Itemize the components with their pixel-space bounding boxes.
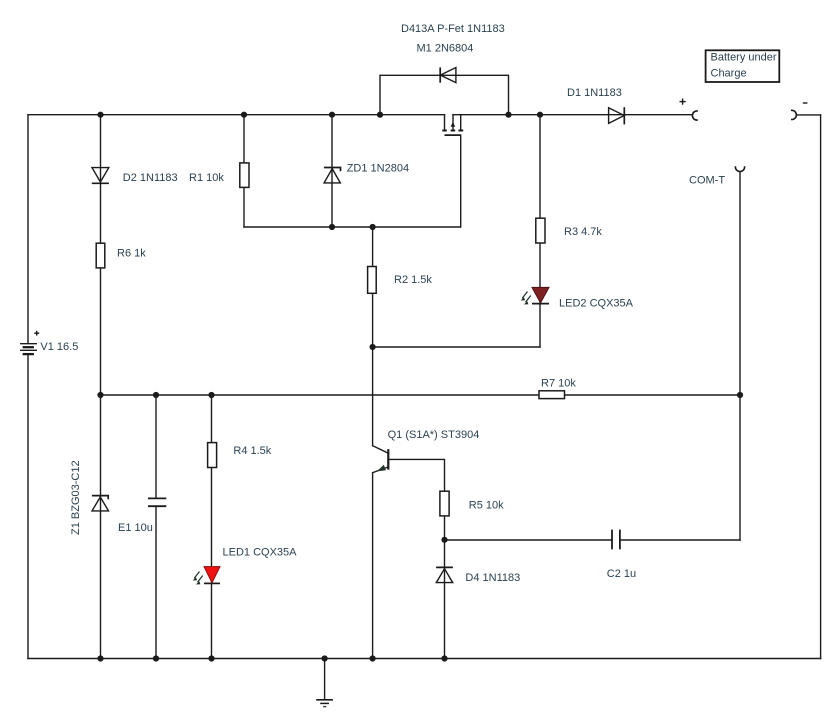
svg-text:R1 10k: R1 10k xyxy=(189,172,224,184)
svg-text:R7 10k: R7 10k xyxy=(541,378,576,390)
svg-text:R3 4.7k: R3 4.7k xyxy=(564,226,602,238)
svg-text:R5 10k: R5 10k xyxy=(469,500,504,512)
svg-text:R2 1.5k: R2 1.5k xyxy=(394,274,432,286)
svg-text:D1 1N1183: D1 1N1183 xyxy=(567,87,622,99)
svg-text:R6 1k: R6 1k xyxy=(117,248,146,260)
svg-text:ZD1 1N2804: ZD1 1N2804 xyxy=(347,163,409,175)
svg-text:D413A P-Fet 1N1183: D413A P-Fet 1N1183 xyxy=(401,23,505,35)
svg-text:Battery under: Battery under xyxy=(711,52,777,64)
svg-text:Charge: Charge xyxy=(711,68,747,80)
svg-text:D4 1N1183: D4 1N1183 xyxy=(465,572,520,584)
svg-text:Z1 BZG03-C12: Z1 BZG03-C12 xyxy=(70,460,82,535)
svg-text:LED2 CQX35A: LED2 CQX35A xyxy=(559,298,634,310)
svg-text:LED1 CQX35A: LED1 CQX35A xyxy=(223,547,298,559)
svg-text:COM-T: COM-T xyxy=(689,175,725,187)
svg-text:D2 1N1183: D2 1N1183 xyxy=(123,172,178,184)
svg-text:E1 10u: E1 10u xyxy=(118,522,153,534)
svg-text:V1 16.5: V1 16.5 xyxy=(40,341,78,353)
svg-text:C2 1u: C2 1u xyxy=(607,568,636,580)
svg-text:Q1 (S1A*) ST3904: Q1 (S1A*) ST3904 xyxy=(388,429,480,441)
svg-text:R4 1.5k: R4 1.5k xyxy=(233,445,271,457)
svg-text:M1 2N6804: M1 2N6804 xyxy=(417,43,474,55)
